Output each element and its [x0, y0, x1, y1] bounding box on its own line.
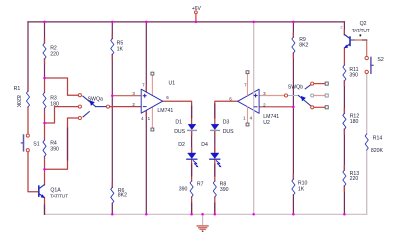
resistor R6: [111, 187, 114, 203]
node C1 junction dot: [111, 94, 114, 97]
svg-text:390: 390: [220, 187, 229, 193]
wire node B2 to R4 top: [44, 123, 46, 140]
diode D1 DUS: [188, 124, 196, 130]
node B1 junction dot: [43, 77, 46, 80]
wire node B1 to R3 top: [44, 78, 46, 93]
square terminal U1 pin 1: [151, 128, 154, 131]
svg-text:D1: D1: [175, 120, 182, 126]
wire rail to U1 pin 7: [145, 22, 147, 93]
svg-text:DUS: DUS: [174, 129, 185, 135]
diode D3 DUS: [211, 124, 219, 130]
wire Q2 base to S2 top: [351, 40, 367, 56]
junction dots on 0V rail: [111, 213, 114, 216]
svg-text:Q1A: Q1A: [50, 187, 61, 193]
svg-text:D3: D3: [223, 120, 230, 126]
wire Q1A emitter to 0V rail: [44, 197, 46, 214]
resistor R2: [43, 43, 46, 59]
svg-text:R14: R14: [373, 135, 383, 141]
svg-text:1K: 1K: [117, 46, 124, 52]
resistor R10: [292, 179, 295, 195]
svg-text:U2: U2: [263, 120, 270, 126]
wire U2 pin 3 to SWQb common: [259, 95, 284, 97]
ground symbol: [202, 214, 204, 225]
wire SWQb top throw to terminal: [314, 83, 325, 85]
wire R14 bottom to 0V rail corner (pale): [366, 150, 368, 214]
pushbutton S1: [26, 134, 29, 137]
node B3 junction dot: [43, 168, 46, 171]
svg-text:U1: U1: [169, 80, 176, 86]
wire SWQb middle throw to terminal: [314, 95, 325, 97]
svg-text:D4: D4: [201, 142, 208, 148]
LED D2: [188, 153, 196, 159]
resistor R1: [26, 91, 29, 107]
node B2 junction dot: [43, 122, 46, 125]
svg-text:390: 390: [179, 186, 188, 192]
resistor R9: [292, 37, 295, 53]
wire R13 bottom to 0V rail: [343, 186, 345, 214]
svg-text:Q2: Q2: [360, 21, 367, 27]
wire +6V top supply rail: [28, 21, 344, 23]
wire Q2 emitter down to R11: [343, 48, 345, 65]
wire rail to R9 top: [292, 22, 294, 37]
svg-text:180: 180: [350, 119, 359, 125]
wire U2 pin 5 stub: [247, 74, 249, 95]
wire rail to R5 top: [111, 22, 113, 39]
pushbutton S2: [365, 56, 368, 59]
wire rail end down to Q2 collector: [343, 22, 345, 35]
wire D3 cathode to D4 anode: [214, 131, 216, 152]
wire R2 bottom to node B1: [44, 59, 46, 78]
wire R5 bottom to node C1 and down to R6: [111, 55, 113, 188]
wire SWQa bottom throw to node B3: [45, 118, 80, 169]
wire U2 pin 2 to node H1: [259, 106, 293, 108]
wire U1 pin 1 stub: [151, 107, 153, 128]
wire U1 pin 4 to 0V rail: [145, 110, 147, 214]
resistor R13: [343, 170, 346, 186]
square terminal SWQb middle: [325, 94, 328, 97]
wire U2 pin 7 over triangle (pale): [253, 90, 255, 113]
svg-text:820K: 820K: [371, 148, 384, 154]
svg-text:D2: D2: [178, 142, 185, 148]
svg-text:8K2: 8K2: [118, 193, 127, 199]
svg-text:R7: R7: [197, 181, 204, 187]
wire SWQa common to U1 pin 2: [110, 106, 141, 108]
wire R7 bottom to 0V rail: [191, 197, 193, 214]
wire node B3 to Q1A collector: [44, 169, 46, 185]
svg-text:390: 390: [349, 73, 358, 79]
wire U2 pin 4 to 0V rail (pale): [253, 110, 255, 214]
transistor Q1A: [38, 186, 40, 196]
svg-text:+6V: +6V: [192, 6, 202, 12]
svg-text:8K2: 8K2: [299, 43, 308, 49]
transistor Q2: [349, 37, 351, 45]
svg-text:TAT/TUT: TAT/TUT: [50, 193, 68, 199]
wire D2 cathode to R7: [191, 160, 193, 181]
square terminal U2 pin 1: [246, 123, 249, 126]
resistor R12: [343, 113, 346, 129]
wire R9 bottom to node H1 (U2 pin 2): [292, 53, 294, 107]
wire R1 bottom to S1 top: [27, 107, 29, 134]
svg-text:820K: 820K: [15, 95, 21, 108]
op-amp U2 LM741: [238, 89, 259, 113]
wire SWQb bottom throw to terminal: [314, 106, 325, 108]
selector switch SWQb: [288, 95, 299, 97]
LED D4: [211, 153, 219, 159]
resistor R14: [365, 134, 368, 150]
wire rail to R2 top: [44, 22, 46, 43]
wire R4 bottom to node B3: [44, 157, 46, 170]
op-amp U1 LM741: [141, 89, 162, 113]
wire S2 bottom to R14 (pale): [366, 74, 368, 134]
wire R10 bottom to 0V rail: [292, 195, 294, 214]
svg-text:LM741: LM741: [263, 114, 279, 120]
svg-text:DUS: DUS: [223, 129, 234, 135]
node H1 junction dot: [292, 106, 295, 109]
wire R12 bottom to R13: [343, 129, 345, 170]
wire node C1 to U1 pin 3: [112, 95, 141, 97]
resistor R3: [43, 93, 46, 109]
resistor R11: [343, 65, 346, 81]
+6V supply symbol: [195, 14, 197, 22]
svg-text:390: 390: [50, 146, 59, 152]
resistor R7: [190, 181, 193, 197]
wire S1 bottom to Q1A base: [28, 152, 38, 192]
junction dots on +6V rail: [43, 21, 46, 24]
svg-text:TAT/TUT: TAT/TUT: [352, 28, 370, 34]
wire rail to U2 pin 7 (pale): [253, 22, 255, 90]
wire node H1 down to R10: [292, 107, 294, 179]
svg-text:R1: R1: [14, 86, 21, 92]
wire R6 bottom to 0V rail: [111, 203, 113, 214]
svg-text:220: 220: [50, 52, 59, 58]
resistor R8: [213, 181, 216, 197]
wire U1 output pin 6 to D1 column: [163, 101, 192, 123]
wire U2 output pin 6 to D3 column: [215, 101, 238, 123]
wire node B1 to SWQa top throw: [45, 78, 80, 95]
wire node B2 to SWQa middle throw: [45, 107, 80, 123]
svg-text:SWQb: SWQb: [288, 84, 303, 90]
pin dot on Q2 base wire: [360, 34, 362, 36]
svg-text:S1: S1: [33, 142, 39, 148]
svg-text:1K: 1K: [298, 186, 305, 192]
wire R11 bottom to R12: [343, 81, 345, 113]
resistor R4: [43, 140, 46, 157]
wire R8 bottom to 0V rail: [214, 197, 216, 214]
svg-text:LM741: LM741: [157, 108, 173, 114]
square terminal SWQb bottom: [325, 106, 328, 109]
svg-text:SWQa: SWQa: [88, 97, 103, 103]
wire U2 pin 1 stub: [247, 107, 249, 123]
wire D1 cathode to D2 anode: [191, 131, 193, 152]
svg-text:S2: S2: [377, 57, 383, 63]
resistor R5: [111, 39, 114, 55]
wire 0V bottom rail: [45, 213, 367, 215]
wire D4 cathode to R8: [214, 160, 216, 181]
wire R3 bottom to node B2: [44, 109, 46, 124]
svg-text:2: 2: [340, 25, 342, 30]
wire U1 pin 5 stub: [151, 75, 153, 95]
wire left column from rail to S1: [27, 22, 29, 91]
svg-text:180: 180: [50, 102, 59, 108]
square terminal U1 pin 5: [151, 72, 154, 75]
svg-text:220: 220: [350, 176, 359, 182]
selector switch SWQa: [96, 106, 107, 108]
square terminal SWQb top: [325, 82, 328, 85]
square terminal U2 pin 5: [246, 71, 249, 74]
